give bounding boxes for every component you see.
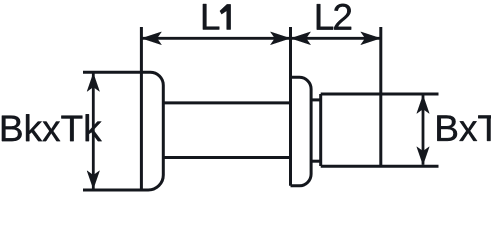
BxT dimension line <box>422 96 425 165</box>
L1 dimension line <box>141 37 290 40</box>
right shaft left edge <box>319 94 322 166</box>
BkxTk bottom arrowhead <box>87 171 99 189</box>
head left edge + L1 left extension line <box>140 27 143 190</box>
L1 right arrowhead <box>271 32 291 45</box>
L2 left arrowhead <box>291 32 311 45</box>
middle shaft bottom edge <box>163 156 290 159</box>
BxT bottom arrowhead <box>417 147 429 165</box>
right shaft top edge + BxT top extension line <box>321 93 439 96</box>
L2 dimension line <box>291 37 381 40</box>
BxT top arrowhead <box>417 95 429 113</box>
neck top edge <box>311 98 321 101</box>
label L1: digit 1 <box>220 4 231 29</box>
BkxTk top arrowhead <box>87 73 99 91</box>
label L1: letter L <box>203 4 219 29</box>
label BxT <box>437 115 491 140</box>
neck bottom edge <box>311 160 321 163</box>
right flange left edge + L1/L2 junction extension line <box>289 27 292 186</box>
right shaft bottom edge + BxT bottom extension line <box>321 165 439 168</box>
label L2: digit 2 <box>334 4 351 30</box>
label BkxTk <box>2 114 102 141</box>
middle shaft top edge <box>163 101 290 104</box>
BkxTk dimension line <box>92 74 95 189</box>
L2 right arrowhead <box>361 32 381 45</box>
right flange outline <box>291 77 312 186</box>
head (left flange) outline <box>83 72 163 190</box>
L1 left arrowhead <box>142 32 162 45</box>
right shaft right edge + L2 right extension line <box>379 27 382 166</box>
label L2: letter L <box>317 4 333 29</box>
